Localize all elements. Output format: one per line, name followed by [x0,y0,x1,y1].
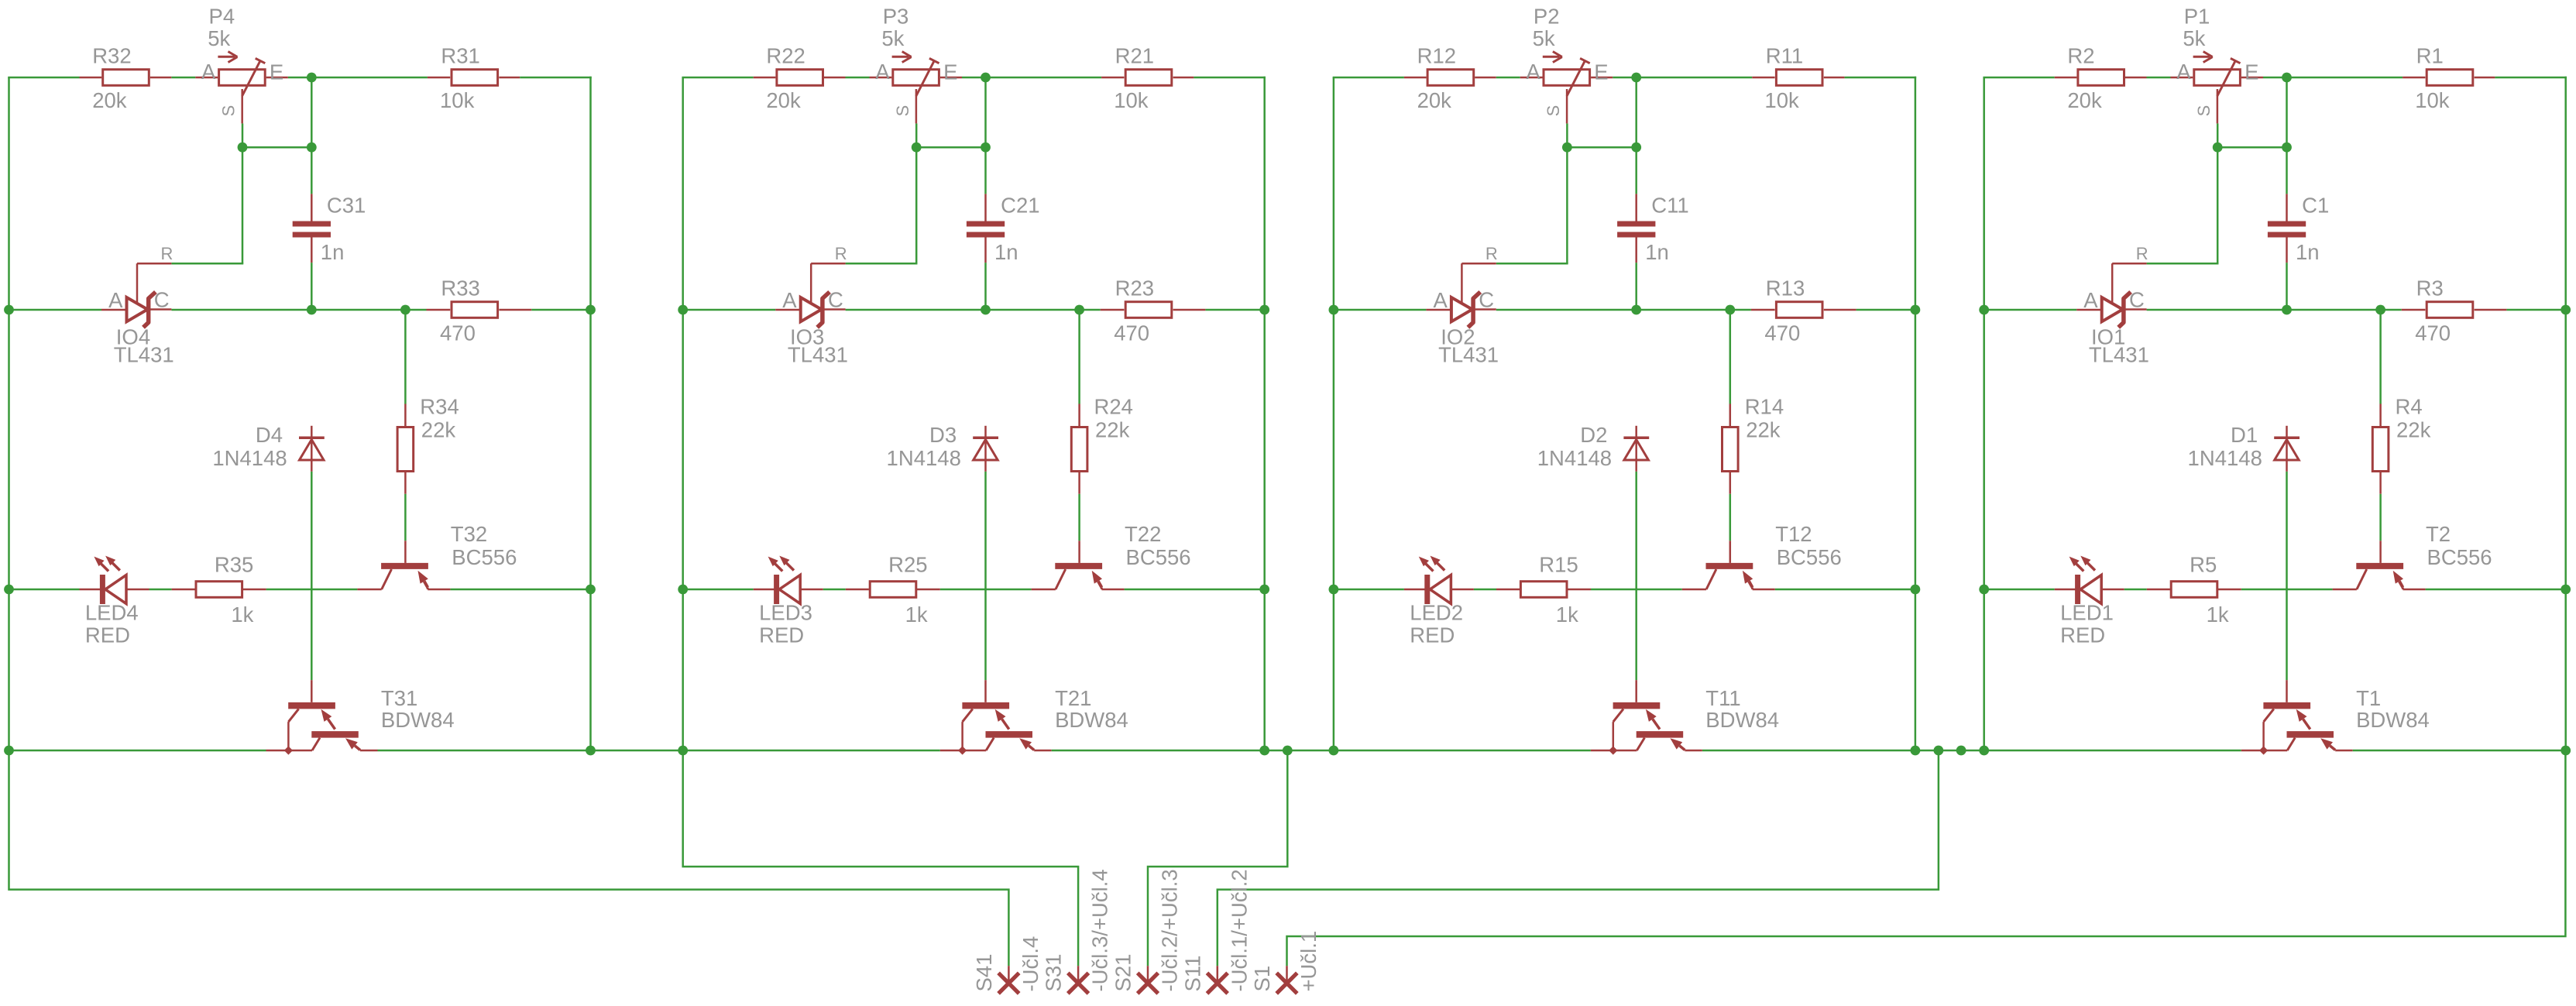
resistor R4 22k [2372,395,2430,494]
svg-text:R: R [161,244,173,263]
wire C11 to main bus [1635,263,1637,310]
node bus at C1 column [2282,305,2292,315]
svg-text:P2: P2 [1534,4,1560,28]
node LED row left [4,585,14,595]
resistor R34 22k [397,395,459,494]
svg-text:5k: 5k [881,26,904,50]
node bottom rail left [4,746,14,756]
resistor R1 [2403,43,2567,112]
svg-text:-Učl.1/+Učl.2: -Učl.1/+Učl.2 [1227,869,1251,991]
svg-text:T12: T12 [1775,522,1812,546]
node LED row right [1911,585,1921,595]
wire top from P3 E to right vertical [962,77,1101,79]
svg-text:A: A [875,60,890,84]
svg-text:-Učl.3/+Učl.4: -Učl.3/+Učl.4 [1088,869,1112,991]
TL431 shunt regulator IO4 [101,244,174,367]
svg-text:RED: RED [2060,623,2105,647]
svg-text:TL431: TL431 [2089,342,2149,366]
wire E junction down to junction row [984,77,987,147]
svg-text:C: C [828,287,843,311]
resistor R5 1k [2147,552,2241,627]
svg-text:R34: R34 [420,395,459,419]
svg-text:C21: C21 [1001,194,1039,218]
svg-text:C: C [2129,287,2145,311]
svg-text:S11: S11 [1180,956,1204,992]
diode D2 1N4148 [1537,423,1649,472]
wire S junction down [1566,147,1568,263]
node bottom rail right [1259,746,1269,756]
svg-text:R5: R5 [2190,552,2217,576]
svg-text:D1: D1 [2231,423,2258,447]
resistor R21 [1101,43,1266,112]
wire D4 cathode column down to T31 base [311,472,313,680]
wire C21 to main bus [984,263,987,310]
wire top from P4 E to right vertical [288,77,428,79]
wire S junction down [2217,147,2219,263]
svg-text:1n: 1n [1645,240,1669,264]
svg-text:T2: T2 [2426,522,2451,546]
wire junction row horizontal [916,146,985,149]
svg-text:470: 470 [1764,321,1800,345]
wire main bus right segment [531,309,590,311]
wire C31 to main bus [311,263,313,310]
LED LED3 RED [754,556,823,647]
svg-text:R31: R31 [441,43,479,67]
svg-text:R13: R13 [1766,276,1805,300]
svg-text:+Učl.1: +Učl.1 [1297,931,1321,992]
svg-text:1n: 1n [994,240,1018,264]
node bus at C11 column [1631,305,1641,315]
svg-text:R1: R1 [2416,43,2444,67]
wire R12 net top-left segment [1333,77,1404,79]
svg-text:R: R [835,244,847,263]
svg-text:C: C [154,287,170,311]
resistor R23 470 [1101,276,1206,345]
transistor T11 BDW84 (darlington) [1591,680,1779,750]
resistor R13 470 [1751,276,1856,345]
svg-text:1n: 1n [2296,240,2320,264]
diode D3 1N4148 [887,423,998,472]
node bus right vertical [1911,305,1921,315]
node T1 collector junction [2259,746,2268,754]
svg-text:R11: R11 [1766,43,1803,67]
svg-text:1N4148: 1N4148 [2188,446,2262,470]
svg-text:LED3: LED3 [759,600,812,624]
node P4 E junction [307,73,317,83]
wire main bus middle segment [171,309,426,311]
svg-text:R32: R32 [92,43,131,67]
svg-text:R4: R4 [2396,395,2423,419]
node LED row left [678,585,688,595]
transistor T22 BC556 [1032,522,1191,589]
svg-text:P4: P4 [209,4,235,28]
wire main bus middle segment [846,309,1101,311]
wire E junction down to junction row [311,77,313,147]
svg-text:BC556: BC556 [2427,545,2492,569]
wire LED3 to R25 [823,589,846,591]
wire D2 cathode column down to T11 base [1635,472,1637,680]
node bus at C21 column [981,305,991,315]
LED LED1 RED [2055,556,2124,647]
svg-text:470: 470 [440,321,476,345]
svg-text:1k: 1k [231,603,253,627]
wire LED row left [683,589,754,591]
svg-text:A: A [201,60,216,84]
wire R35 to T32 [266,589,358,591]
node T31 collector junction [284,746,293,754]
wire R22 net top-left segment [682,77,753,79]
potentiometer P4 5k [195,4,287,123]
svg-text:R23: R23 [1115,276,1154,300]
svg-text:470: 470 [1114,321,1149,345]
svg-text:D2: D2 [1580,423,1607,447]
svg-text:BDW84: BDW84 [1055,708,1128,732]
node LED row left [1329,585,1339,595]
resistor R32 [80,43,172,112]
svg-text:5k: 5k [1533,26,1555,50]
connector pin S31 -Učl.3/+Učl.4 [1042,869,1112,994]
resistor R11 [1752,43,1916,112]
svg-text:A: A [2176,60,2191,84]
svg-text:1N4148: 1N4148 [1537,446,1612,470]
node bus left vertical [1329,305,1339,315]
resistor R35 1k [172,552,266,627]
wire R25 to T22 [940,589,1032,591]
wire main bus left segment [683,309,776,311]
node bottom rail left [678,746,688,756]
diode D4 1N4148 [212,423,324,472]
transistor T32 BC556 [357,522,517,589]
capacitor C1 1n [2268,194,2329,264]
wire R14 to T12 base [1729,494,1732,541]
resistor R33 470 [427,276,532,345]
wire main bus left segment [1984,309,2077,311]
potentiometer P3 5k [870,4,963,123]
svg-text:C: C [1479,287,1494,311]
svg-text:A: A [1526,60,1540,84]
svg-text:470: 470 [2415,321,2451,345]
wire junction row horizontal [242,146,311,149]
wire junction row to C1 [2286,147,2288,194]
connector pin S41 -Učl.4 [972,936,1042,994]
svg-text:E: E [1594,60,1608,84]
svg-text:C31: C31 [327,194,366,218]
svg-text:20k: 20k [1417,88,1452,112]
node bus at R4 column [2375,305,2385,315]
wire junction row horizontal [1567,146,1636,149]
wire main bus middle segment [1496,309,1751,311]
svg-text:22k: 22k [421,417,456,441]
wire right vertical [2564,77,2567,750]
wire S21 riser [1148,750,1287,966]
wire LED2 to R15 [1474,589,1496,591]
svg-text:BC556: BC556 [1126,545,1191,569]
node junction row right [981,142,991,153]
wire R4 to T2 base [2379,494,2382,541]
wire E junction down to junction row [2286,77,2288,147]
wire to IO3 R pin [846,263,918,265]
node S21 riser junction [1283,746,1293,756]
svg-text:R21: R21 [1115,43,1154,67]
node P3 E junction [981,73,991,83]
svg-text:A: A [2083,288,2098,312]
node bus right vertical [1259,305,1269,315]
svg-text:BDW84: BDW84 [381,708,455,732]
svg-text:BC556: BC556 [452,545,517,569]
wire main bus right segment [1205,309,1264,311]
wire T32 emitter to right vertical [450,589,590,591]
wire LED row left [1334,589,1404,591]
wire top from P1 E to right vertical [2263,77,2403,79]
svg-text:RED: RED [759,623,804,647]
svg-text:A: A [782,288,797,312]
wire to IO2 R pin [1496,263,1568,265]
node junction row left [2213,142,2223,153]
wire bus down to R24 [1078,310,1080,404]
node spare junction [1956,746,1966,756]
svg-text:T22: T22 [1125,522,1161,546]
connector pin S21 -Učl.2/+Učl.3 [1111,869,1182,994]
node junction row left [238,142,248,153]
svg-text:S41: S41 [972,954,996,992]
potentiometer P1 5k [2171,4,2264,123]
resistor R14 22k [1722,395,1784,494]
transistor T1 BDW84 (darlington) [2241,680,2430,750]
svg-text:-Učl.4: -Učl.4 [1018,936,1042,992]
svg-text:1N4148: 1N4148 [887,446,961,470]
node T11 collector junction [1609,746,1617,754]
wire LED4 to R35 [149,589,172,591]
node bus at R34 column [400,305,410,315]
svg-text:R33: R33 [441,276,479,300]
wire R32 net top-left segment [8,77,79,79]
wire T12 emitter to right vertical [1775,589,1915,591]
node bus left vertical [4,305,14,315]
node junction row right [2282,142,2292,153]
potentiometer P2 5k [1520,4,1613,123]
wire to IO4 R pin [171,263,243,265]
wire C1 to main bus [2286,263,2288,310]
svg-text:T31: T31 [381,686,417,710]
svg-text:LED4: LED4 [85,600,139,624]
wire between R22 and P3 [846,77,870,79]
svg-text:22k: 22k [1746,417,1781,441]
resistor R3 470 [2402,276,2507,345]
wire top from P2 E to right vertical [1613,77,1752,79]
wire right vertical [589,77,592,750]
wire S1 riser [1287,750,2566,966]
wire LED row left [9,589,80,591]
svg-text:1k: 1k [1556,603,1578,627]
svg-text:1N4148: 1N4148 [212,446,287,470]
wire right vertical [1915,77,1917,750]
svg-text:E: E [943,60,957,84]
capacitor C31 1n [293,194,366,264]
node LED row left [1979,585,1989,595]
svg-text:R: R [1485,244,1498,263]
wire left vertical [1333,77,1335,750]
wire bottom rail segment S21 net [1052,750,1591,752]
node bottom rail left [1329,746,1339,756]
wire junction row horizontal [2217,146,2286,149]
wire bottom rail segment S31 net [378,750,940,752]
svg-text:S: S [219,105,239,117]
wire main bus middle segment [2147,309,2402,311]
node junction row right [1631,142,1641,153]
svg-text:1k: 1k [905,603,928,627]
wire bottom rail segment S1 net [2353,750,2566,752]
wire junction row to C11 [1635,147,1637,194]
svg-text:5k: 5k [2183,26,2205,50]
wire bus down to R14 [1729,310,1732,404]
svg-text:T21: T21 [1055,686,1091,710]
wire R5 to T2 [2241,589,2333,591]
svg-text:D4: D4 [256,423,283,447]
wire P4 S down to junction row [242,123,244,147]
wire left vertical [1983,77,1985,750]
svg-text:-Učl.2/+Učl.3: -Učl.2/+Učl.3 [1158,869,1182,991]
transistor T21 BDW84 (darlington) [940,680,1128,750]
wire P3 S down to junction row [915,123,918,147]
resistor R25 1k [846,552,940,627]
svg-text:T1: T1 [2356,686,2381,710]
node junction row right [307,142,317,153]
svg-text:S: S [1544,105,1563,117]
wire P2 S down to junction row [1566,123,1568,147]
svg-text:BDW84: BDW84 [2356,708,2430,732]
wire S31 riser [683,750,1078,966]
svg-text:BC556: BC556 [1777,545,1842,569]
svg-text:T32: T32 [451,522,487,546]
svg-text:R24: R24 [1094,395,1133,419]
svg-text:10k: 10k [2415,88,2450,112]
svg-text:1n: 1n [321,240,345,264]
wire S junction down [915,147,918,263]
node bottom rail right [586,746,596,756]
TL431 shunt regulator IO3 [775,244,848,367]
svg-text:S21: S21 [1111,954,1135,992]
node bus right vertical [2561,305,2571,315]
node bottom rail left [1979,746,1989,756]
svg-text:E: E [2245,60,2258,84]
svg-text:S1: S1 [1250,966,1274,992]
LED LED2 RED [1404,556,1474,647]
svg-text:R2: R2 [2067,43,2094,67]
wire bus down to R34 [404,310,407,404]
svg-text:10k: 10k [1764,88,1799,112]
svg-text:BDW84: BDW84 [1705,708,1779,732]
connector pin S1 +Učl.1 [1250,931,1321,994]
resistor R31 [428,43,592,112]
wire left vertical [8,77,10,750]
wire between R2 and P1 [2147,77,2171,79]
capacitor C21 1n [967,194,1040,264]
svg-text:A: A [108,288,123,312]
capacitor C11 1n [1617,194,1689,264]
wire left vertical [682,77,684,750]
diode D1 1N4148 [2188,423,2300,472]
wire R24 to T22 base [1078,494,1080,541]
wire right vertical [1263,77,1266,750]
node bottom rail right [1911,746,1921,756]
LED LED4 RED [80,556,149,647]
svg-text:20k: 20k [92,88,127,112]
node T21 collector junction [958,746,967,754]
wire to IO1 R pin [2147,263,2219,265]
svg-text:R12: R12 [1417,43,1456,67]
svg-text:RED: RED [85,623,130,647]
svg-text:R22: R22 [766,43,805,67]
node P2 E junction [1631,73,1641,83]
svg-text:LED2: LED2 [1410,600,1463,624]
svg-text:C11: C11 [1651,194,1688,218]
node bus left vertical [1979,305,1989,315]
svg-text:R: R [2136,244,2148,263]
resistor R15 1k [1496,552,1591,627]
svg-text:T11: T11 [1705,686,1740,710]
node S11 riser junction [1934,746,1944,756]
svg-text:P1: P1 [2184,4,2210,28]
node bus left vertical [678,305,688,315]
svg-text:R25: R25 [888,552,927,576]
wire T22 emitter to right vertical [1125,589,1265,591]
node junction row left [912,142,922,153]
wire P1 S down to junction row [2217,123,2219,147]
svg-text:10k: 10k [1114,88,1149,112]
wire LED1 to R5 [2124,589,2147,591]
svg-text:LED1: LED1 [2060,600,2114,624]
transistor T12 BC556 [1682,522,1842,589]
resistor R2 [2055,43,2147,112]
svg-text:R14: R14 [1745,395,1784,419]
wire bottom rail segment S41 net [9,750,266,752]
svg-text:TL431: TL431 [114,342,174,366]
wire junction row to C31 [311,147,313,194]
wire between R32 and P4 [171,77,195,79]
wire main bus left segment [1334,309,1427,311]
svg-text:10k: 10k [440,88,475,112]
wire D3 cathode column down to T21 base [984,472,987,680]
TL431 shunt regulator IO2 [1426,244,1499,367]
svg-text:P3: P3 [883,4,909,28]
wire LED row left [1984,589,2055,591]
wire S41 riser [9,750,1009,966]
wire bus down to R4 [2379,310,2382,404]
wire junction row to C21 [984,147,987,194]
svg-text:5k: 5k [208,26,230,50]
svg-text:TL431: TL431 [788,342,848,366]
svg-text:TL431: TL431 [1438,342,1499,366]
node bus at C31 column [307,305,317,315]
node LED row right [2561,585,2571,595]
node bus at R24 column [1074,305,1084,315]
transistor T31 BDW84 (darlington) [266,680,455,750]
transistor T2 BC556 [2333,522,2492,589]
wire main bus right segment [2506,309,2565,311]
TL431 shunt regulator IO1 [2076,244,2149,367]
svg-text:R35: R35 [215,552,253,576]
svg-text:R3: R3 [2416,276,2444,300]
resistor R22 [754,43,846,112]
node bottom rail right [2561,746,2571,756]
node bus right vertical [586,305,596,315]
node LED row right [1259,585,1269,595]
wire R15 to T12 [1591,589,1682,591]
wire main bus right segment [1856,309,1915,311]
wire R34 to T32 base [404,494,407,541]
connector pin S11 -Učl.1/+Učl.2 [1180,869,1251,994]
node LED row right [586,585,596,595]
